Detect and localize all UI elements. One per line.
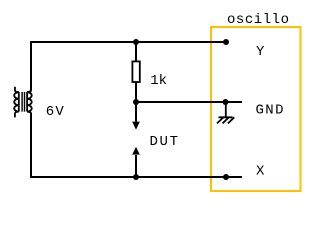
svg-text:DUT: DUT <box>150 134 179 150</box>
svg-text:Y: Y <box>256 44 265 60</box>
svg-text:GND: GND <box>256 103 284 119</box>
svg-text:X: X <box>256 164 265 180</box>
svg-text:1k: 1k <box>150 73 167 89</box>
svg-text:oscillo: oscillo <box>227 12 289 28</box>
svg-text:6V: 6V <box>46 104 65 120</box>
